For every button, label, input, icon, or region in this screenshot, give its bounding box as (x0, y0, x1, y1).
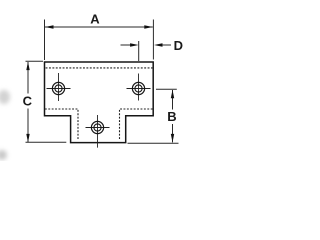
dim C arrow up (26, 62, 29, 71)
svg-text:B: B (167, 109, 176, 124)
dim B line lower (172, 124, 174, 142)
hole H1 left: crosshair (47, 88, 71, 90)
svg-text:C: C (23, 94, 33, 109)
hole H2 right: crosshair (127, 88, 151, 90)
dim A arrow left (45, 25, 54, 28)
svg-text:A: A (90, 12, 100, 27)
svg-text:D: D (174, 38, 183, 53)
dim A/D extension line right (152, 20, 154, 60)
hidden line right step (120, 109, 153, 140)
dim A arrow right (144, 25, 153, 28)
dim C line upper (27, 62, 29, 94)
dim D arrow pointing right (130, 43, 139, 46)
dim A extension line left (44, 20, 46, 61)
dim B line upper (172, 90, 174, 110)
scan smudge bottom-left corner (0, 150, 7, 160)
dim C extension line bottom (26, 141, 67, 143)
dim B arrow down (171, 134, 174, 143)
dim B extension line bottom (128, 142, 179, 144)
hole H1 left: circles (52, 82, 64, 94)
dim C line lower (27, 109, 29, 143)
hidden line left step (45, 109, 78, 140)
dim D left tail (121, 44, 132, 46)
hole H3 center: circles (91, 121, 103, 133)
dim B extension line top (from hole center) (156, 88, 177, 90)
dim D extension line (hole centerline extended) (138, 41, 140, 61)
dim A line (45, 26, 153, 28)
hole H2 right: circles (132, 82, 144, 94)
dim D arrow pointing left (154, 43, 163, 46)
hole H3 center: crosshair (86, 127, 110, 129)
dim B arrow up (171, 90, 174, 99)
dim D right tail (161, 44, 171, 46)
dim C extension line top (26, 60, 44, 62)
hidden line under top edge (46, 67, 153, 69)
part outline (T-shaped plate) (45, 62, 154, 143)
scan smudge left edge (0, 90, 10, 104)
dim C arrow down (26, 134, 29, 143)
